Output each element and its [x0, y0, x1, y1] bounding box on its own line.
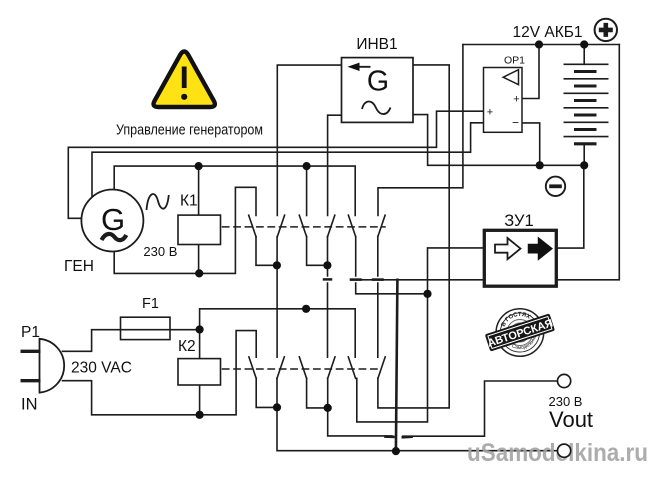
wire heavy vertical from +12V line to output neutral rail [396, 280, 398, 451]
wire K2 coil top [199, 330, 201, 359]
relay coil K2 [178, 359, 221, 385]
warning triangle [154, 52, 215, 108]
junction +12V rail / OP1 + [535, 40, 543, 48]
junction mains feed / K2.3 top [302, 305, 310, 313]
wire Vout live line right part to Vout upper terminal [403, 381, 558, 436]
svg-text:230 В: 230 В [143, 244, 177, 259]
contact K1.2 blade [277, 215, 284, 237]
charger ZU1 open arrow [495, 238, 521, 259]
charger ZU1 box [484, 230, 556, 286]
generator sine symbol [147, 194, 169, 210]
contact K2.2 blade [277, 357, 284, 379]
K2 linkage dashed line [223, 368, 378, 370]
wire mains neutral to contact K2.1 top [63, 331, 257, 415]
K1 linkage dashed line [223, 226, 386, 228]
wire contact K2.3 bottom to node E [307, 378, 328, 408]
junction output neutral / heavy vertical [392, 447, 400, 455]
wire INV1 left AC pin to contact K1.2 top [277, 65, 341, 215]
Vout lower terminal [558, 444, 571, 457]
wire K1 coil bottom [198, 245, 200, 274]
inverter INV1 box [342, 58, 414, 123]
svg-text:Vout: Vout [549, 407, 593, 432]
battery plus terminal symbol [595, 19, 617, 41]
wire hop tick left of heavy vertical [386, 435, 394, 438]
svg-text:IN: IN [21, 396, 38, 414]
plug P1 prong 1 [21, 350, 41, 353]
node B [323, 261, 331, 269]
wire contact K2.1 bottom to node D [256, 378, 277, 407]
inverter INV1 arrow [354, 66, 371, 68]
wire contact K2.4 bottom to Vout live line (left part with hop) [328, 378, 392, 436]
wire ZU1 output to battery minus node [556, 165, 583, 248]
fuse F1 [121, 317, 171, 339]
junction minus rail / OP1 - [536, 161, 544, 169]
wire OP1 right + pin to +12V rail [522, 45, 539, 99]
wire +12V drop to contact K1.6 top [378, 45, 463, 216]
contact K1.5 blade [348, 215, 355, 237]
wire battery plus to +12V rail [583, 45, 585, 65]
contact K2.1 blade [249, 357, 256, 379]
node A [273, 261, 281, 269]
wire +12V distribution line left of ZU1 [352, 279, 484, 281]
svg-text:К2: К2 [178, 338, 196, 355]
wire generator output to contact K1.1 top [114, 187, 256, 273]
junction minus rail / K1 coil top [195, 162, 203, 170]
svg-text:−: − [512, 116, 519, 130]
wire INV1 right AC pin down to contact K2.6 bottom [378, 65, 449, 408]
wire contact K1.4 bottom to contact K2.4 top (with hop) [327, 237, 329, 358]
svg-text:P1: P1 [21, 324, 40, 341]
svg-text:F1: F1 [142, 296, 159, 312]
inverter INV1 sine symbol [362, 101, 391, 114]
wire mains line through fuse F1 to K2 contacts feed [63, 330, 200, 352]
wire hop tick right of heavy vertical [403, 435, 412, 438]
wire fuse node up to K2.3/K2.5 feed line [200, 309, 356, 357]
svg-text:ЗУ1: ЗУ1 [504, 212, 533, 230]
contact K1.4 blade [328, 215, 335, 237]
wire contact K2.2 bottom to output neutral rail and Vout lower terminal [277, 378, 558, 450]
plug P1 body [40, 339, 65, 393]
wire hop tick on K1.5 bottom link [351, 278, 360, 281]
wire rail2: generator control line 2 to OP1 lower left pin [92, 123, 484, 198]
svg-text:К1: К1 [180, 193, 198, 210]
node C [423, 290, 431, 298]
generator tilde symbol [102, 234, 127, 240]
wire K2 coil bottom [199, 385, 201, 415]
wire INV1 lower left pin to contact K1.4 top [328, 115, 342, 215]
svg-text:G: G [367, 66, 389, 98]
svg-text:+: + [487, 107, 493, 119]
wire ZU1 input from node C to contact K2.5 bottom [357, 248, 485, 422]
svg-text:ИНВ1: ИНВ1 [356, 36, 397, 53]
wire contact K1.6 bottom to contact K2.6 top (with hop) [377, 237, 379, 358]
wire rail1: generator control line 1 to OP1 pin + [68, 111, 483, 218]
contact K2.6 blade [378, 357, 385, 379]
junction minus rail / K1.3 top [303, 162, 311, 170]
charger ZU1 filled arrow [529, 238, 552, 259]
svg-text:+: + [513, 94, 519, 106]
svg-text:12V АКБ1: 12V АКБ1 [513, 24, 583, 41]
junction generator rail / K1 coil bottom [195, 269, 203, 277]
contact K1.3 blade [299, 215, 306, 237]
wire rail3: generator top to minus rail and contact K1.5 top [114, 166, 355, 215]
wire hop tick on K1.6-K2.6 link [373, 278, 382, 281]
node D [273, 403, 281, 411]
wire battery bottom to minus rail [583, 144, 585, 166]
svg-text:G: G [101, 202, 125, 237]
junction +12V rail / battery plus [580, 40, 588, 48]
battery AKB1 plates [564, 64, 609, 144]
wire hop tick on K1.4-K2.4 link [324, 278, 331, 281]
Vout upper terminal [558, 374, 571, 387]
contact K2.5 blade [348, 357, 355, 379]
contact K2.4 blade [328, 357, 335, 379]
contact K1.6 blade [378, 215, 385, 237]
wire contact K1.3 top from minus rail dot [306, 166, 308, 215]
node E [324, 404, 332, 412]
svg-text:Управление генератором: Управление генератором [116, 122, 263, 139]
junction fuse output node [196, 325, 204, 333]
svg-text:OP1: OP1 [504, 55, 525, 67]
contact K1.1 blade [249, 215, 256, 237]
svg-text:ГЕН: ГЕН [64, 258, 94, 275]
optocoupler OP1 triangle [503, 70, 518, 85]
junction minus rail / battery bottom [580, 161, 588, 169]
svg-text:230 VAC: 230 VAC [71, 360, 132, 377]
battery minus terminal symbol [546, 177, 565, 196]
wire contact K1.1 bottom to node A [256, 237, 277, 266]
optocoupler OP1 box [484, 68, 523, 133]
contact K2.3 blade [299, 357, 306, 379]
generator G1 circle [81, 190, 143, 252]
wire INV1 lower right pin to battery minus rail [413, 115, 584, 166]
wire OP1 right - pin to minus rail [522, 123, 540, 165]
wire contact K1.2 bottom through node A to contact K2.2 top [276, 237, 278, 358]
wire +12V rail [463, 44, 619, 46]
wire contact K1.3 bottom to node B [307, 237, 328, 266]
warning triangle exclamation mark [182, 67, 187, 89]
wire +12V terminal drop to lower distribution line [556, 45, 619, 280]
authors stamp [481, 302, 558, 360]
relay coil K1 [178, 215, 221, 244]
plug P1 prong 2 [21, 379, 41, 382]
junction mains neutral / K2 coil bottom [196, 411, 204, 419]
wire contact K1.5 bottom to node C (with hop) [356, 237, 428, 294]
wire K1 coil top [198, 166, 200, 215]
